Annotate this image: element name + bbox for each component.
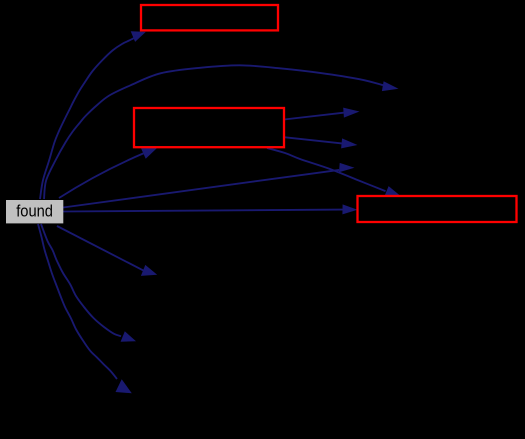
svg-text:found: found bbox=[16, 202, 53, 220]
